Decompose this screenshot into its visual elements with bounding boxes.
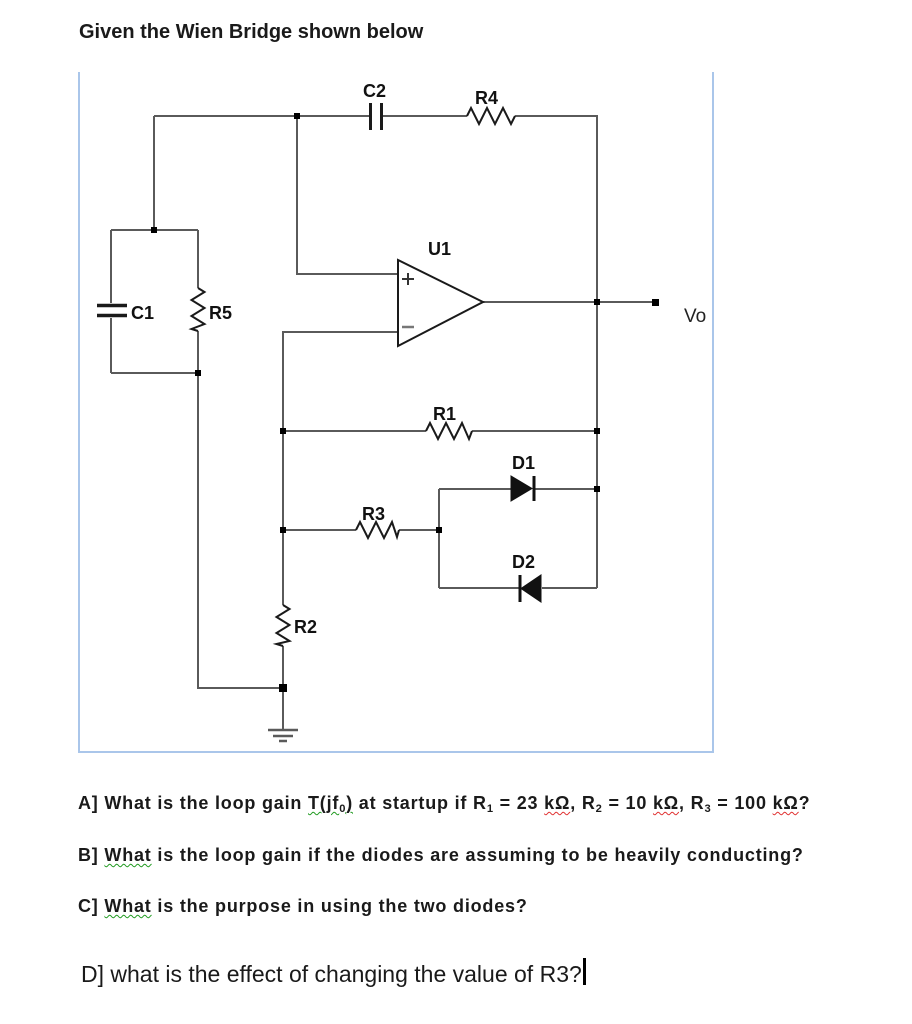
node Vo terminal (652, 299, 659, 306)
svg-text:R4: R4 (475, 88, 498, 108)
svg-text:R1: R1 (433, 404, 456, 424)
ground (268, 730, 298, 741)
resistor R3 (356, 522, 399, 538)
wire top of C1/R5 loop (111, 229, 198, 231)
wire R1 right (472, 430, 597, 432)
diode D1 (511, 476, 534, 501)
capacitor C1 (97, 306, 127, 316)
node R3 right (436, 527, 442, 533)
svg-text:C2: C2 (363, 81, 386, 101)
wire C2 to R4 (383, 115, 467, 117)
wire R5 lower stem (197, 331, 199, 373)
svg-text:Vo: Vo (684, 306, 706, 327)
wire C1 upper stem (110, 230, 112, 303)
resistor R5 (192, 288, 205, 331)
node R1 left (280, 428, 286, 434)
wire bottom of C1/R5 loop (111, 372, 198, 374)
question C (78, 896, 528, 917)
wire D1 row (439, 488, 511, 490)
svg-text:U1: U1 (428, 239, 451, 259)
question A (78, 793, 810, 814)
wire left vertical from top wire to C1/R5 loop (153, 116, 155, 230)
wire R1 row (283, 430, 426, 432)
resistor R4 (467, 108, 515, 124)
svg-text:R2: R2 (294, 617, 317, 637)
wire op-amp output (483, 301, 655, 303)
resistor R1 (426, 423, 472, 439)
node output rail crossing (594, 299, 600, 305)
capacitor C2 (371, 103, 382, 130)
wire to op-amp + input (297, 116, 398, 274)
wire D1 cathode to rail (535, 488, 597, 490)
node R1 right (594, 428, 600, 434)
question D (81, 961, 582, 988)
node on top wire (294, 113, 300, 119)
schematic frame box (78, 72, 714, 753)
diode D2 (520, 575, 541, 602)
wire R4 to top-right corner and right vertical rail (515, 116, 597, 588)
wire R3 row (283, 529, 356, 531)
node D1 right (594, 486, 600, 492)
node C1/R5 top (151, 227, 157, 233)
node ground junction (279, 684, 287, 692)
node C1/R5 bottom (195, 370, 201, 376)
wire R3 to diode box (399, 529, 439, 531)
svg-text:D2: D2 (512, 552, 535, 572)
op-amp U1 (398, 260, 483, 346)
resistor R2 (277, 605, 290, 646)
wire to op-amp - input (283, 332, 398, 605)
wire C1 lower stem (110, 318, 112, 373)
wire top horizontal left of C2 (154, 115, 369, 117)
wire left outer vertical down to ground run (198, 373, 283, 688)
wire D2 row right (542, 587, 597, 589)
wire diode box left side (438, 489, 440, 588)
svg-text:D1: D1 (512, 453, 535, 473)
title text (79, 21, 423, 44)
wire R5 upper stem (197, 230, 199, 288)
wire D2 row left (439, 587, 519, 589)
svg-text:R5: R5 (209, 303, 232, 323)
node R3 left (280, 527, 286, 533)
question B (78, 845, 804, 866)
wire R2 bottom to ground node (282, 646, 284, 729)
svg-text:R3: R3 (362, 504, 385, 524)
text cursor (583, 958, 586, 985)
svg-text:C1: C1 (131, 303, 154, 323)
